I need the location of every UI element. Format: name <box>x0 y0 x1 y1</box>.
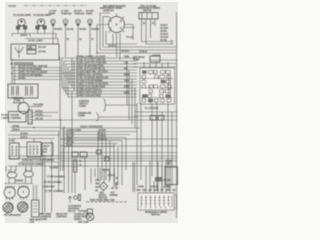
lamp L5 <box>76 19 81 57</box>
svg-text:18G: 18G <box>142 189 146 192</box>
pump feed wires <box>91 168 114 184</box>
svg-text:ANT ASM: ANT ASM <box>78 221 88 224</box>
fuse block FB1 <box>8 84 38 98</box>
harness box small rect B <box>27 50 36 54</box>
horn left H1 <box>7 170 17 178</box>
headlight switch connector U1 <box>106 14 128 36</box>
svg-text:18 BRN: 18 BRN <box>54 28 62 31</box>
svg-text:CONTROL: CONTROL <box>56 216 68 219</box>
svg-text:DGR: DGR <box>124 85 129 88</box>
right bracket <box>174 195 177 208</box>
svg-text:18 LGR: 18 LGR <box>35 118 43 121</box>
svg-text:18 DBL: 18 DBL <box>79 28 87 31</box>
svg-text:4 8 5A2: 4 8 5A2 <box>8 5 16 8</box>
lamp L3 <box>51 19 56 44</box>
svg-text:1B BLK: 1B BLK <box>139 51 147 54</box>
svg-text:TO RR: TO RR <box>102 169 109 172</box>
svg-text:2R: 2R <box>115 187 118 190</box>
hatched bar <box>74 160 77 172</box>
svg-text:18 BLK: 18 BLK <box>20 34 28 37</box>
svg-text:18B: 18B <box>136 189 140 192</box>
svg-text:PWR TRAIN WIRE ASM: PWR TRAIN WIRE ASM <box>90 199 115 202</box>
svg-text:18 GRA: 18 GRA <box>121 50 129 53</box>
harness box small rect A <box>27 46 36 50</box>
wiper switch box S2 <box>138 193 174 210</box>
dimmer label bar <box>11 62 34 65</box>
svg-text:2 RED WHT: 2 RED WHT <box>43 186 56 189</box>
dimmer module box <box>42 143 53 156</box>
svg-text:CONN: CONN <box>40 218 47 221</box>
svg-text:TO PWR: TO PWR <box>78 210 87 213</box>
header dash-dot line <box>24 5 88 7</box>
corner bracket box bottom right <box>165 167 178 185</box>
svg-text:18 DBL: 18 DBL <box>18 77 26 80</box>
svg-text:18 PNK: 18 PNK <box>163 186 171 189</box>
svg-text:18T: 18T <box>166 189 170 192</box>
relay K1 <box>10 143 20 159</box>
svg-text:MOTOR: MOTOR <box>143 10 152 13</box>
horn feed wires <box>6 166 32 172</box>
relay K2 <box>27 142 41 157</box>
svg-text:B RED WHT TO REAR WIRING: B RED WHT TO REAR WIRING <box>22 159 54 162</box>
svg-text:18B: 18B <box>28 46 32 49</box>
bottom mid vertical wires <box>45 91 72 212</box>
left vertical feeders <box>12 60 15 84</box>
svg-text:RT RR CHANNEL: RT RR CHANNEL <box>44 181 63 184</box>
svg-text:18 YEL: 18 YEL <box>160 39 168 42</box>
right mid horizontals <box>60 112 177 120</box>
firewall box <box>88 209 93 214</box>
svg-text:18 YEL 2 RED: 18 YEL 2 RED <box>28 40 43 43</box>
instrument cluster connector block <box>140 62 175 104</box>
flasher F1 <box>18 103 29 114</box>
wire row y67 <box>12 67 62 69</box>
horn ground bus <box>4 177 33 184</box>
lamp L6 <box>88 19 93 57</box>
svg-text:CONN: CONN <box>79 105 86 108</box>
left pair verticals down <box>61 120 64 171</box>
vertical bundle center <box>98 132 126 186</box>
svg-text:TO HEADLAMPS: TO HEADLAMPS <box>13 14 31 17</box>
svg-text:AUX: AUX <box>9 140 14 143</box>
svg-text:18 LBL: 18 LBL <box>67 28 75 31</box>
svg-text:PPL: PPL <box>124 67 129 70</box>
speaker connector pins L <box>6 186 14 189</box>
speaker circle 1 <box>4 187 15 201</box>
lamp L4 <box>63 19 68 57</box>
right verticals down <box>137 103 172 190</box>
svg-text:LBL: LBL <box>124 61 129 64</box>
junction rows <box>10 127 60 129</box>
inline connector tags <box>97 150 102 154</box>
to horn arrow <box>30 106 42 108</box>
svg-text:PARK: PARK <box>86 13 93 16</box>
headlamp interconnect wires <box>12 34 56 39</box>
lower label rows <box>64 131 137 133</box>
woofer hatched 1 <box>3 202 13 213</box>
svg-text:G: G <box>163 91 165 94</box>
svg-text:2R: 2R <box>95 190 98 193</box>
svg-text:TURN SIG: TURN SIG <box>12 97 23 100</box>
cluster wires <box>75 157 85 193</box>
svg-text:LT RR CHANNEL: LT RR CHANNEL <box>47 176 66 179</box>
svg-text:1B ORN: 1B ORN <box>50 167 59 170</box>
svg-text:18 BLK: 18 BLK <box>20 136 28 139</box>
svg-text:18 BRN: 18 BRN <box>91 28 99 31</box>
svg-text:TO HORN: TO HORN <box>33 104 44 107</box>
svg-text:18 YEL: 18 YEL <box>66 144 74 147</box>
svg-text:1B BLK: 1B BLK <box>108 45 116 48</box>
connector bar C1 <box>28 110 32 124</box>
wire row y79 <box>12 79 62 81</box>
svg-text:FRT SPEAKERS: FRT SPEAKERS <box>4 214 22 217</box>
svg-text:18Y: 18Y <box>160 189 164 192</box>
crossover wire <box>60 127 140 129</box>
svg-text:PNL: PNL <box>167 163 172 166</box>
headlamp L2 <box>36 19 46 34</box>
resistor block R1 <box>32 200 40 217</box>
brace <box>103 99 107 111</box>
feed rows above relays <box>8 135 60 139</box>
svg-text:18 BLK: 18 BLK <box>12 129 20 132</box>
wire row y73 <box>12 73 62 75</box>
fan left feeders <box>60 57 74 120</box>
svg-text:18P: 18P <box>148 189 152 192</box>
long horizontals grid <box>8 139 177 166</box>
svg-text:WIRING: WIRING <box>110 194 119 197</box>
svg-text:TO REAR BODY WIRING: TO REAR BODY WIRING <box>18 163 44 166</box>
svg-text:PARK: PARK <box>49 13 56 16</box>
svg-text:HARN A/C: HARN A/C <box>103 10 114 13</box>
dimmer switch fork S1 <box>15 47 25 59</box>
fan row corner drops <box>127 61 135 128</box>
svg-text:2 ORN: 2 ORN <box>137 186 144 189</box>
speaker circle 2 <box>18 186 29 200</box>
svg-text:BRN: BRN <box>124 73 129 76</box>
small box top right mid <box>150 56 160 62</box>
antenna symbol cluster <box>68 195 80 204</box>
svg-text:18 PNK 3 IGN SW FEED: 18 PNK 3 IGN SW FEED <box>76 94 101 97</box>
wire row y70 <box>12 70 62 72</box>
right horizontals <box>133 60 177 67</box>
svg-text:SWITCH: SWITCH <box>151 214 160 217</box>
resistor feed wires <box>34 150 43 214</box>
svg-text:TURN SIG: TURN SIG <box>61 13 72 16</box>
svg-text:18 TAN: 18 TAN <box>38 51 46 54</box>
wiper switch feeders <box>146 161 170 193</box>
wire fan rows <box>62 57 137 59</box>
wire above harness box <box>25 39 58 45</box>
right border wire <box>176 12 178 218</box>
svg-text:LT FRT CHANNEL: LT FRT CHANNEL <box>45 190 65 193</box>
wiper motor M1 <box>139 13 173 45</box>
center cluster small boxes <box>72 152 87 157</box>
horn right H2 <box>24 169 34 177</box>
fuse tag right <box>155 177 162 182</box>
svg-text:LPS: LPS <box>30 221 35 224</box>
junction dots <box>11 67 13 69</box>
svg-text:PUMP: PUMP <box>133 59 140 62</box>
svg-text:TO A/C: TO A/C <box>126 36 134 39</box>
svg-text:CONN: CONN <box>78 115 85 118</box>
headlamp L1 <box>16 19 26 34</box>
wire row y76 <box>12 76 62 78</box>
alt connector symbol <box>111 184 117 189</box>
svg-text:HORNS: HORNS <box>15 180 24 183</box>
svg-text:LAMPS: LAMPS <box>1 117 9 120</box>
cruise leads <box>32 113 60 121</box>
svg-text:18 DGR: 18 DGR <box>150 186 158 189</box>
svg-text:18 GRA: 18 GRA <box>35 114 43 117</box>
washer pump diamond D1 <box>100 182 108 191</box>
svg-text:CONTROL: CONTROL <box>11 117 23 120</box>
grommet circle <box>86 213 94 221</box>
speaker connector pins R <box>19 185 27 188</box>
relay leads <box>14 138 42 150</box>
left harness box <box>11 44 59 60</box>
svg-text:TAN: TAN <box>124 79 129 82</box>
woofer hatched 2 <box>18 202 28 213</box>
double vertical to switch <box>133 162 135 192</box>
svg-text:RED: RED <box>124 91 129 94</box>
svg-text:18 LGR: 18 LGR <box>38 46 46 49</box>
cruise control box <box>9 112 27 123</box>
svg-text:18L: 18L <box>172 189 176 192</box>
svg-text:ORN: ORN <box>124 55 129 58</box>
svg-text:TURN SIG: TURN SIG <box>74 13 85 16</box>
switch connector leads <box>97 13 176 60</box>
